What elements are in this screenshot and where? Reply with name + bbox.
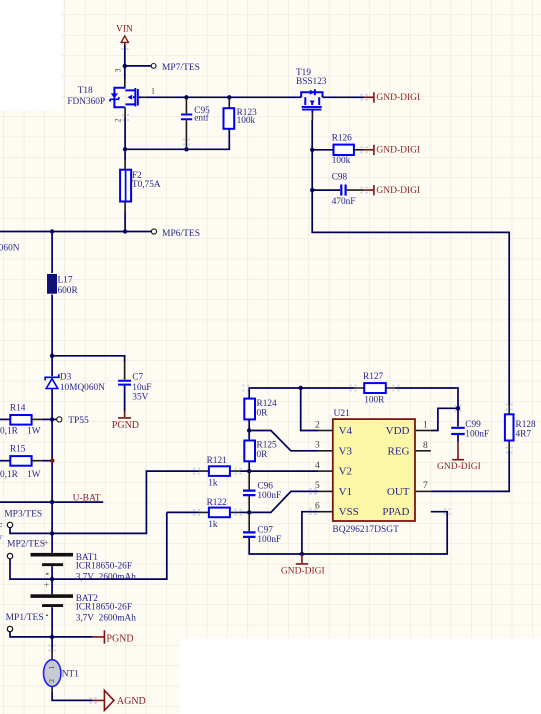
pin C96 bottom stub	[248, 496, 250, 512]
node R14/TP55	[50, 417, 54, 421]
capacitor C7	[118, 373, 151, 403]
svg-text:1: 1	[423, 421, 428, 431]
power port GND-DIGI (C99)	[437, 435, 481, 472]
fuse F2	[120, 170, 161, 202]
node V2 row	[247, 469, 251, 473]
svg-text:R122: R122	[207, 498, 227, 508]
wire U-BAT	[0, 501, 103, 503]
pin R126 right stub	[354, 149, 364, 151]
pin R14 right stub	[32, 418, 42, 420]
wire BAT1 bottom to mid	[51, 566, 53, 594]
pin 6 VSS	[318, 511, 333, 513]
svg-text:GND-DIGI: GND-DIGI	[437, 462, 481, 472]
testpoint MP6/TES	[151, 229, 200, 239]
node rail F2	[123, 147, 127, 151]
wire OUT to R128	[431, 450, 509, 491]
transistor T18	[67, 69, 155, 123]
capacitor C95	[181, 106, 210, 123]
svg-text:ICR18650-26F: ICR18650-26F	[76, 603, 132, 613]
wire C98 left	[312, 189, 340, 191]
svg-text:4R7: 4R7	[516, 430, 532, 440]
svg-text:MP6/TES: MP6/TES	[162, 229, 200, 239]
svg-text:T0,75A: T0,75A	[132, 180, 161, 190]
wire to C7	[52, 356, 125, 362]
wire MP6 rail	[0, 231, 151, 233]
node battery plus	[50, 531, 54, 535]
svg-text:100k: 100k	[332, 156, 351, 166]
node VSS rail	[300, 552, 304, 556]
svg-text:C7: C7	[132, 373, 143, 383]
power port GND-DIGI (C98)	[364, 185, 420, 196]
svg-text:TP55: TP55	[68, 416, 89, 426]
svg-text:PPAD: PPAD	[382, 506, 409, 518]
svg-text:600R: 600R	[58, 286, 79, 296]
svg-text:3: 3	[315, 441, 320, 451]
svg-text:ICR18650-26F: ICR18650-26F	[76, 561, 132, 571]
resistor R15	[0, 444, 41, 480]
pin C97 top stub	[248, 512, 250, 531]
wire spine U-BAT to BAT1	[51, 502, 53, 553]
svg-text:0,1R: 0,1R	[0, 426, 19, 436]
svg-text:10uF: 10uF	[132, 383, 151, 393]
node rail V4 riser	[299, 386, 303, 390]
svg-text:0R: 0R	[257, 408, 269, 418]
resistor R123	[224, 108, 258, 129]
wire R127 to C99 node	[395, 388, 458, 427]
svg-text:R128: R128	[516, 420, 536, 430]
svg-text:4: 4	[315, 461, 320, 471]
wire MP2 to mid tap	[10, 512, 167, 579]
wire NT1 to AGND	[52, 692, 93, 700]
svg-text:MP1/TES: MP1/TES	[6, 613, 44, 623]
resistor R127	[354, 372, 395, 405]
diode D3	[45, 373, 105, 393]
pin T18 pin2 stub	[124, 107, 126, 117]
wire T18 to F2	[124, 117, 126, 160]
node D3/C7	[50, 354, 54, 358]
battery BAT2	[31, 573, 137, 623]
wire R126 left	[312, 149, 333, 151]
power port PGND	[93, 630, 134, 644]
inductor L17	[47, 274, 78, 296]
svg-text:R15: R15	[10, 444, 26, 454]
power port PGND (C7)	[112, 412, 139, 431]
svg-text:PGND: PGND	[112, 420, 139, 431]
svg-text:+: +	[44, 581, 49, 591]
wire R122 row	[240, 511, 249, 513]
svg-text:C99: C99	[465, 420, 481, 430]
wire gate rail bottom	[125, 129, 229, 150]
svg-text:entf: entf	[194, 112, 209, 123]
svg-text:NT1: NT1	[62, 670, 79, 680]
wire MP1 to PGND node	[10, 632, 93, 637]
capacitor C96	[243, 482, 281, 501]
svg-text:1k: 1k	[208, 478, 218, 488]
battery BAT1	[31, 553, 137, 583]
power port GND-DIGI (VSS)	[281, 554, 325, 576]
svg-text:V2: V2	[339, 466, 352, 478]
capacitor C97	[243, 526, 281, 545]
svg-text:100k: 100k	[237, 116, 256, 126]
svg-text:0,1R: 0,1R	[0, 470, 19, 480]
svg-text:VIN: VIN	[116, 25, 133, 35]
wire R15 left	[0, 460, 10, 462]
svg-text:AGND: AGND	[117, 696, 146, 707]
node C98 tap	[310, 188, 314, 192]
svg-text:1W: 1W	[27, 426, 41, 436]
svg-text:FDN360P: FDN360P	[67, 97, 105, 107]
svg-text:8: 8	[423, 441, 428, 451]
node R126 tap	[310, 148, 314, 152]
wire R124 bottom junction	[248, 419, 250, 440]
pin 3 V3	[318, 450, 333, 452]
resistor R14	[0, 403, 41, 436]
svg-text:7: 7	[423, 481, 428, 491]
svg-text:1: 1	[151, 87, 155, 96]
svg-text:5: 5	[315, 481, 320, 491]
svg-text:ICR18650-26F: ICR18650-26F	[0, 522, 2, 532]
wire R125 bottom to V2 row	[248, 461, 250, 471]
node C99	[456, 406, 460, 410]
svg-text:D3: D3	[60, 373, 72, 383]
testpoint MP3/TES	[4, 510, 42, 528]
svg-text:35V: 35V	[132, 392, 148, 402]
power port GND-DIGI (R126)	[364, 145, 420, 156]
svg-text:100R: 100R	[364, 395, 385, 405]
pin 8 REG	[416, 450, 431, 452]
wire T19 gate vertical	[312, 120, 509, 405]
wire C95 bottom	[185, 120, 187, 149]
svg-text:10MQ060N: 10MQ060N	[60, 383, 105, 393]
svg-text:470nF: 470nF	[332, 197, 356, 207]
svg-text:1W: 1W	[27, 470, 41, 480]
svg-text:BQ296217DSGT: BQ296217DSGT	[332, 525, 399, 535]
node MP6 left	[50, 229, 54, 233]
wire R123 top drop	[228, 97, 230, 108]
white area top-left	[0, 0, 61, 111]
svg-text:V1: V1	[339, 486, 352, 498]
pin R15 right stub	[32, 460, 42, 462]
svg-text:BSS123: BSS123	[296, 77, 327, 87]
wire T18 gate rail to T19	[147, 96, 302, 98]
white area bottom-right	[180, 639, 541, 714]
svg-text:R127: R127	[363, 372, 383, 382]
svg-text:1k: 1k	[208, 520, 218, 530]
svg-text:R124: R124	[257, 399, 277, 409]
svg-text:R121: R121	[207, 456, 227, 466]
svg-text:U21: U21	[334, 409, 351, 419]
pin T18 drain stub	[141, 96, 147, 98]
terminal hotspot markers	[49, 43, 513, 704]
wire VSS drop	[302, 512, 318, 554]
power port VIN	[116, 25, 133, 45]
wire V4 riser	[301, 388, 318, 431]
node MP6 F2	[123, 229, 127, 233]
node R124/R125	[247, 428, 251, 432]
resistor R121	[199, 456, 240, 488]
wire VDD	[431, 408, 458, 430]
pin T18 pin3 stub	[124, 79, 126, 88]
wire C97 bottom / VSS rail	[249, 512, 447, 554]
wire R14 to spine	[42, 418, 57, 420]
svg-text:V3: V3	[339, 445, 353, 457]
wire C7 bottom	[124, 386, 126, 412]
svg-text:100nF: 100nF	[257, 491, 281, 501]
svg-text:R126: R126	[332, 134, 352, 144]
resistor R122	[199, 498, 240, 530]
node R15 junction (red)	[50, 459, 54, 463]
node U-BAT	[50, 500, 54, 504]
svg-text:T18: T18	[78, 86, 93, 96]
svg-text:V4: V4	[339, 425, 353, 437]
pin T19 gate stub	[311, 113, 313, 121]
pin C98 right stub	[347, 189, 365, 191]
svg-text:3: 3	[114, 69, 123, 73]
svg-text:2: 2	[47, 679, 56, 683]
svg-text:MP3/TES: MP3/TES	[4, 510, 42, 520]
wire MP3	[10, 528, 52, 534]
svg-text:GND-DIGI: GND-DIGI	[281, 566, 325, 576]
svg-text:GND-DIGI: GND-DIGI	[376, 186, 420, 196]
power port GND-DIGI (T19)	[364, 92, 420, 103]
wire T19 source to GND-DIGI	[323, 96, 365, 98]
capacitor C99	[451, 420, 489, 440]
resistor R126	[332, 134, 354, 166]
pin 2 V4	[318, 430, 333, 432]
svg-text:2: 2	[315, 420, 320, 430]
wire L17 to D3 node	[51, 295, 53, 356]
pin 4 V2	[318, 470, 333, 472]
svg-text:100nF: 100nF	[465, 430, 489, 440]
IC U21	[315, 409, 431, 535]
svg-text:VDD: VDD	[386, 425, 410, 437]
wire R14 left	[0, 418, 10, 420]
testpoint TP55	[57, 416, 89, 426]
wire VIN vertical	[124, 45, 126, 79]
svg-text:OUT: OUT	[387, 486, 410, 498]
net tie NT1	[44, 660, 80, 687]
svg-text:3,7V 2600mAh: 3,7V 2600mAh	[76, 614, 137, 624]
svg-text:+: +	[43, 539, 48, 549]
wire R122 left riser handled above	[167, 511, 199, 513]
pin 1 VDD	[416, 430, 431, 432]
node C96/C97/R122	[247, 510, 251, 514]
wire top rail R124/R127	[249, 388, 354, 399]
wire spine to L17	[51, 232, 53, 274]
svg-text:3,7V: 3,7V	[0, 535, 3, 545]
resistor R128	[505, 405, 536, 451]
svg-text:6: 6	[315, 502, 320, 512]
resistor R124	[244, 399, 277, 420]
svg-text:10MQ060N: 10MQ060N	[0, 243, 20, 253]
wire D3 to R14 node	[51, 389, 53, 420]
wire V2	[240, 470, 318, 472]
wire MP7	[125, 65, 151, 67]
wire F2 to MP6 rail	[124, 202, 126, 212]
svg-text:3,7V 2600mAh: 3,7V 2600mAh	[76, 573, 137, 583]
transistor T19	[296, 68, 327, 113]
pin 5 V1	[318, 490, 333, 492]
power port AGND	[93, 690, 146, 710]
node R123 top	[227, 95, 231, 99]
svg-text:PGND: PGND	[106, 633, 133, 644]
wire battery plus to R121 riser	[52, 471, 199, 533]
testpoint MP7/TES	[151, 63, 200, 73]
svg-text:VSS: VSS	[339, 506, 359, 518]
svg-text:R14: R14	[10, 403, 26, 413]
wire spine R14 to R15	[51, 419, 53, 502]
node battery mid	[50, 577, 54, 581]
svg-text:100nF: 100nF	[257, 535, 281, 545]
wire V1 diagonal	[249, 491, 318, 512]
capacitor C98	[332, 173, 356, 208]
pin C7 top stub	[124, 362, 126, 380]
svg-text:GND-DIGI: GND-DIGI	[376, 93, 420, 103]
svg-text:0R: 0R	[257, 450, 269, 460]
svg-text:L17: L17	[58, 276, 73, 286]
wire V3 diagonal	[249, 431, 318, 451]
svg-text:MP7/TES: MP7/TES	[162, 63, 200, 73]
pin NT1 bottom stub	[51, 687, 53, 692]
svg-text:2: 2	[114, 119, 123, 123]
wire PGND node to NT1	[51, 637, 53, 649]
svg-text:1: 1	[47, 665, 56, 669]
testpoint MP2/TES	[7, 539, 49, 559]
pin C96 top stub	[248, 471, 250, 489]
wire D3 top	[51, 356, 53, 376]
svg-text:MP2/TES: MP2/TES	[7, 539, 45, 549]
svg-text:GND-DIGI: GND-DIGI	[376, 146, 420, 156]
node VIN junction	[123, 64, 127, 68]
node PGND	[50, 635, 54, 639]
svg-text:C98: C98	[332, 173, 348, 183]
wire R15 to spine	[42, 460, 52, 462]
node rail C95	[184, 147, 188, 151]
pin NT1 top stub	[51, 649, 53, 660]
testpoint MP1/TES	[6, 613, 49, 632]
svg-text:REG: REG	[388, 445, 410, 457]
wire BAT2 bottom to PGND node	[51, 607, 53, 637]
node C95 top	[184, 95, 188, 99]
pin 7 OUT	[416, 490, 431, 492]
wire C95 top drop	[185, 97, 187, 113]
resistor R125	[244, 440, 277, 461]
